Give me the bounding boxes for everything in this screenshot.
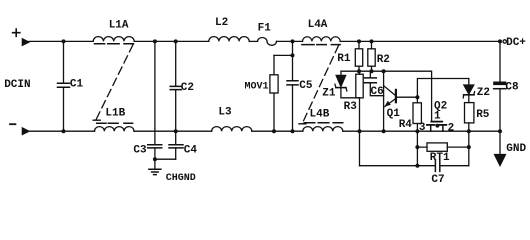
svg-text:R2: R2 [377, 54, 390, 66]
svg-text:L2: L2 [215, 17, 228, 29]
svg-text:L1A: L1A [109, 20, 129, 32]
svg-text:3: 3 [419, 122, 426, 134]
svg-text:R5: R5 [476, 109, 490, 121]
svg-text:R4: R4 [399, 119, 413, 131]
svg-text:C5: C5 [299, 80, 313, 92]
svg-text:C6: C6 [371, 86, 384, 98]
svg-text:C1: C1 [70, 78, 84, 90]
svg-text:L4A: L4A [308, 19, 328, 31]
svg-text:C8: C8 [505, 82, 519, 94]
svg-text:C4: C4 [184, 144, 198, 156]
svg-text:L3: L3 [218, 107, 232, 119]
svg-text:R1: R1 [337, 53, 351, 65]
svg-text:L1B: L1B [105, 108, 125, 120]
svg-text:F1: F1 [258, 23, 272, 35]
svg-text:CHGND: CHGND [166, 173, 196, 184]
svg-text:R3: R3 [344, 101, 358, 113]
svg-text:DC+: DC+ [506, 37, 526, 49]
svg-text:Z2: Z2 [477, 87, 490, 99]
svg-text:Z1: Z1 [322, 88, 336, 100]
svg-text:DCIN: DCIN [4, 79, 30, 91]
svg-text:MOV1: MOV1 [245, 81, 269, 92]
svg-text:L4B: L4B [310, 109, 330, 121]
svg-text:C7: C7 [431, 174, 444, 186]
svg-text:RT1: RT1 [430, 152, 450, 164]
svg-text:C3: C3 [133, 144, 147, 156]
svg-text:C2: C2 [181, 82, 194, 94]
svg-text:GND: GND [506, 143, 526, 155]
svg-text:2: 2 [448, 123, 455, 135]
svg-text:1: 1 [434, 111, 441, 123]
